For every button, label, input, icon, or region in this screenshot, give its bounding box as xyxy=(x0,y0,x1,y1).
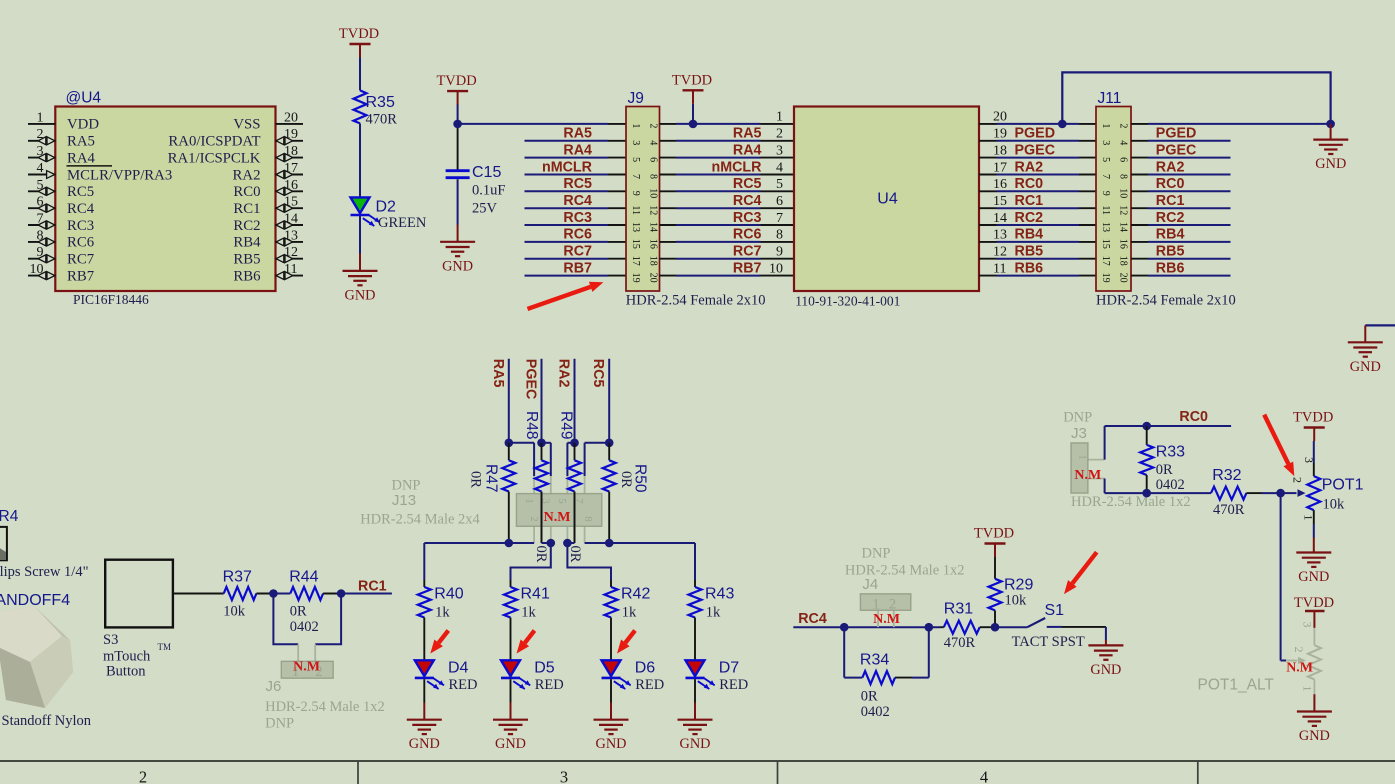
resistor R31 470R xyxy=(944,601,980,652)
wire R29 to junction xyxy=(994,610,996,627)
node label RB7 (J9 right) xyxy=(733,260,762,276)
svg-text:RB6: RB6 xyxy=(1156,260,1185,276)
svg-text:1: 1 xyxy=(1077,454,1089,460)
svg-text:20: 20 xyxy=(648,273,659,283)
U4 pin 4 MCLR/VPP/RA3 xyxy=(28,161,172,183)
svg-text:2: 2 xyxy=(528,516,540,522)
svg-text:RC7: RC7 xyxy=(563,244,592,260)
node label RA2 (vertical) xyxy=(556,359,572,388)
U4 socket pin number 18 xyxy=(993,143,1007,158)
node label RA4 (J9 left) xyxy=(563,142,592,158)
op-amp U4 PIC16F18446 body xyxy=(55,90,275,308)
wire U4 pin 12 to J11 xyxy=(979,258,1096,260)
label N.M (J4) xyxy=(873,612,900,627)
svg-text:0R: 0R xyxy=(861,689,878,705)
svg-text:R44: R44 xyxy=(289,569,318,586)
svg-text:19: 19 xyxy=(1100,273,1111,283)
U4 socket pin number 1 xyxy=(776,110,783,125)
power TVDD (R35 branch) xyxy=(339,26,379,58)
node junctions bottom row J13 xyxy=(505,539,614,548)
U4 pin 1 VDD xyxy=(28,110,99,132)
sheet border column dividers xyxy=(358,761,1198,784)
svg-text:RC1: RC1 xyxy=(233,201,260,217)
svg-text:RED: RED xyxy=(535,677,564,693)
U4 pin 2 RA5 xyxy=(28,127,95,149)
resistor R35 470R xyxy=(354,90,398,127)
red annotation arrow at LED xyxy=(517,631,535,654)
wire J11 right stub RC1 xyxy=(1131,207,1231,209)
svg-text:R41: R41 xyxy=(521,586,550,603)
svg-text:18: 18 xyxy=(993,143,1007,158)
svg-text:6: 6 xyxy=(776,194,783,209)
U4 pin 6 RC4 xyxy=(28,195,95,217)
svg-text:12: 12 xyxy=(648,205,659,215)
U4 socket pin number 14 xyxy=(993,211,1007,226)
svg-text:19: 19 xyxy=(993,127,1007,142)
svg-text:0.1uF: 0.1uF xyxy=(472,183,505,199)
wire R43 to D7 xyxy=(694,618,696,661)
svg-text:0R: 0R xyxy=(468,471,484,488)
svg-text:nMCLR: nMCLR xyxy=(542,159,593,175)
node label RC2 (J11 right) xyxy=(1156,210,1185,226)
node label RA4 (J9 right) xyxy=(733,142,762,158)
U4 pin 10 RB7 xyxy=(28,262,94,284)
red annotation arrow at S1 xyxy=(1064,552,1097,594)
sheet zone number 3 xyxy=(560,768,568,784)
svg-text:1k: 1k xyxy=(622,605,637,621)
svg-text:POT1_ALT: POT1_ALT xyxy=(1198,677,1275,694)
wire U4 pin 16 to J11 xyxy=(979,190,1096,192)
node label RC0 (U4 right) xyxy=(1015,176,1044,192)
resistor R43 1k xyxy=(689,580,735,621)
node label RC0 (J11 right) xyxy=(1156,176,1185,192)
svg-text:5: 5 xyxy=(556,498,568,504)
svg-text:15: 15 xyxy=(993,194,1007,209)
connector J6 DNP body xyxy=(281,661,333,680)
svg-text:4: 4 xyxy=(776,160,783,175)
U4 pin 11 RB6 xyxy=(233,262,303,284)
wire R35 to D2 xyxy=(359,123,361,197)
svg-text:RA5: RA5 xyxy=(67,134,95,150)
wire D7 to GND xyxy=(694,679,696,720)
svg-text:VDD: VDD xyxy=(67,117,99,133)
svg-text:RC3: RC3 xyxy=(563,210,592,226)
svg-text:17: 17 xyxy=(1100,256,1111,266)
svg-text:J3: J3 xyxy=(1071,425,1087,442)
svg-text:10k: 10k xyxy=(1323,497,1346,513)
wire net RC6 to J9 xyxy=(525,241,627,243)
wire staircase to R41 xyxy=(511,543,551,580)
svg-text:RB4: RB4 xyxy=(233,235,261,251)
svg-text:2: 2 xyxy=(776,127,783,142)
node label RC3 (J9 left) xyxy=(563,210,592,226)
wire TVDD to R29 xyxy=(994,557,996,579)
svg-text:16: 16 xyxy=(993,177,1007,192)
svg-text:S3: S3 xyxy=(103,632,118,648)
red annotation arrow at POT1 xyxy=(1264,415,1294,477)
svg-text:1: 1 xyxy=(523,498,535,504)
wire C15 to GND xyxy=(457,179,459,242)
wire J11 right stub RC2 xyxy=(1131,224,1231,226)
label N.M (J6) xyxy=(293,660,320,675)
svg-text:GND: GND xyxy=(409,736,440,752)
node label RC5 (vertical) xyxy=(590,359,606,388)
svg-text:D4: D4 xyxy=(448,660,469,677)
node label RC1 (J11 right) xyxy=(1156,193,1185,209)
svg-text:HDR-2.54 Male 1x2: HDR-2.54 Male 1x2 xyxy=(1071,494,1191,510)
svg-text:RA1/ICSPCLK: RA1/ICSPCLK xyxy=(168,150,261,166)
label J3 DNP xyxy=(1063,410,1092,443)
svg-text:9: 9 xyxy=(776,245,783,260)
svg-text:DNP: DNP xyxy=(265,716,294,732)
U4 pin 15 RC1 xyxy=(233,195,303,217)
node label PGED (U4 right) xyxy=(1015,126,1056,142)
svg-text:RB4: RB4 xyxy=(1015,227,1044,243)
svg-text:20: 20 xyxy=(993,110,1007,125)
svg-text:RB7: RB7 xyxy=(733,260,762,276)
wire J9 pin 12 to U4 pin 6 xyxy=(660,207,795,209)
svg-text:2: 2 xyxy=(1292,647,1306,653)
node label RC3 (J9 right) xyxy=(733,210,762,226)
svg-text:110-91-320-41-001: 110-91-320-41-001 xyxy=(795,294,900,309)
svg-text:RC5: RC5 xyxy=(67,184,94,200)
wire J11 right stub PGED xyxy=(1131,140,1231,142)
connector J3 DNP body xyxy=(1071,443,1105,493)
svg-text:RC6: RC6 xyxy=(733,227,762,243)
node label PGEC (U4 right) xyxy=(1015,142,1056,158)
node label RC6 (J9 right) xyxy=(733,227,762,243)
wire R31 to junction xyxy=(980,626,995,628)
node junction R37/R44 xyxy=(269,589,278,598)
svg-text:Standoff Nylon: Standoff Nylon xyxy=(2,713,92,729)
svg-text:10: 10 xyxy=(769,261,783,276)
svg-text:0402: 0402 xyxy=(290,619,319,635)
svg-text:RC3: RC3 xyxy=(67,218,94,234)
node label RC0 xyxy=(1179,409,1208,425)
node label RB7 (J9 left) xyxy=(563,260,592,276)
node label RB6 (U4 right) xyxy=(1015,260,1044,276)
label J4 DNP HDR-2.54 Male 1x2 xyxy=(845,546,965,594)
wire J9 pin 6 to U4 pin 3 xyxy=(660,157,795,159)
power TVDD (R29) xyxy=(974,526,1014,558)
svg-text:D6: D6 xyxy=(635,660,656,677)
node junction RC0/R33 xyxy=(1142,422,1151,431)
svg-text:1: 1 xyxy=(1302,515,1316,521)
U4 pin 12 RB5 xyxy=(233,245,303,267)
svg-text:RB7: RB7 xyxy=(563,260,592,276)
U4 pin 8 RC6 xyxy=(28,228,94,250)
potentiometer POT1_ALT (DNP) xyxy=(1286,622,1321,695)
node label RA5 (vertical) xyxy=(490,359,506,388)
U4 socket pin number 8 xyxy=(776,228,783,243)
wire top row to J13 pin stubs xyxy=(509,443,609,476)
svg-text:11: 11 xyxy=(630,205,641,215)
svg-text:DNP: DNP xyxy=(1063,410,1092,426)
resistor R49 0R xyxy=(568,443,581,543)
svg-text:3: 3 xyxy=(1100,140,1111,145)
node label RA5 (J9 right) xyxy=(733,126,762,142)
wire net RA5 vertical xyxy=(508,359,510,443)
svg-text:RC0: RC0 xyxy=(1015,176,1044,192)
ground GND (D2) xyxy=(343,271,378,304)
svg-text:R43: R43 xyxy=(705,586,734,603)
wire U4 pin20 loop to GND xyxy=(1062,72,1330,124)
wire U4 pin 15 to J11 xyxy=(979,207,1096,209)
svg-text:R29: R29 xyxy=(1004,577,1033,594)
svg-text:POT1: POT1 xyxy=(1322,477,1364,494)
wire D4 to GND xyxy=(423,679,425,720)
svg-text:PGEC: PGEC xyxy=(1015,142,1056,158)
svg-text:RA4: RA4 xyxy=(67,150,96,166)
svg-text:RA5: RA5 xyxy=(733,126,762,142)
svg-text:11: 11 xyxy=(993,261,1006,276)
svg-text:D5: D5 xyxy=(534,660,555,677)
svg-text:13: 13 xyxy=(993,228,1007,243)
svg-text:2: 2 xyxy=(1291,477,1305,483)
node label nMCLR (J9 left) xyxy=(542,159,593,175)
node junction R34 right xyxy=(925,623,934,632)
svg-text:25V: 25V xyxy=(472,200,498,216)
wire J11 right stub RB4 xyxy=(1131,241,1231,243)
wire R41 to D5 xyxy=(510,618,512,661)
svg-text:R47: R47 xyxy=(483,464,500,492)
node junction R33 bottom xyxy=(1142,489,1151,498)
svg-text:18: 18 xyxy=(648,256,659,266)
wire J9 pin 4 to U4 pin 2 xyxy=(660,140,795,142)
node junctions top row J13 xyxy=(505,439,614,448)
label N.M (J13) xyxy=(544,510,571,525)
svg-text:1: 1 xyxy=(1100,123,1111,128)
svg-text:N.M: N.M xyxy=(873,612,900,627)
svg-text:RA5: RA5 xyxy=(490,359,506,388)
wire staircase to R42 xyxy=(567,543,611,580)
U4 socket pin number 20 xyxy=(993,110,1007,125)
svg-text:STANDOFF4: STANDOFF4 xyxy=(0,592,70,609)
ground GND (D4) xyxy=(407,720,442,753)
svg-text:TVDD: TVDD xyxy=(974,526,1014,542)
label R50 0R rotated xyxy=(618,464,649,493)
U4 pin 13 RB4 xyxy=(233,228,303,250)
component SCR4 screw (clipped) xyxy=(0,508,89,580)
wire net nMCLR to J9 xyxy=(525,174,627,176)
svg-text:1k: 1k xyxy=(521,605,536,621)
svg-text:RC5: RC5 xyxy=(733,176,762,192)
sheet border bottom line xyxy=(0,760,1395,762)
node label RC7 (J9 right) xyxy=(733,244,762,260)
resistor R33 0R 0402 xyxy=(1140,426,1185,493)
resistor R44 0R 0402 xyxy=(289,569,323,636)
label POT1_ALT xyxy=(1198,677,1275,694)
wire D6 to GND xyxy=(610,679,612,720)
wire D2 to GND xyxy=(359,216,361,271)
wire TVDD node to J9 pin 1 xyxy=(458,123,626,125)
label J6 HDR-2.54 Male 1x2 DNP xyxy=(265,678,385,732)
wire S1 to GND xyxy=(1105,627,1107,646)
U4 socket pin number 3 xyxy=(776,143,783,158)
svg-text:D2: D2 xyxy=(376,199,397,216)
svg-text:3: 3 xyxy=(1302,457,1316,463)
sheet zone number 4 xyxy=(980,768,988,784)
label HDR-2.54 Male 1x2 (J3) xyxy=(1071,494,1191,510)
svg-text:RC4: RC4 xyxy=(563,193,592,209)
wire J11 pin 2 to GND net xyxy=(1131,123,1331,125)
svg-text:7: 7 xyxy=(630,174,641,179)
node label RC5 (J9 right) xyxy=(733,176,762,192)
wire J9 pin 18 to U4 pin 9 xyxy=(660,258,795,260)
wire down to R40 xyxy=(423,543,425,580)
wire J9 pin 8 to U4 pin 4 xyxy=(660,174,795,176)
svg-text:470R: 470R xyxy=(944,635,976,651)
U4 pin 5 RC5 xyxy=(28,178,94,200)
svg-text:J9: J9 xyxy=(628,90,644,107)
wire U4 pin 13 to J11 xyxy=(979,241,1096,243)
node label RA2 (U4 right) xyxy=(1015,159,1044,175)
node label RB4 (J11 right) xyxy=(1156,227,1185,243)
resistor R47 0R xyxy=(502,443,515,543)
wire down to R43 xyxy=(694,543,696,580)
wire junction to R44 xyxy=(273,593,290,595)
ground GND (POT1_ALT) xyxy=(1297,712,1332,745)
svg-text:GND: GND xyxy=(1299,728,1330,744)
wire net RC3 to J9 xyxy=(525,224,627,226)
resistor R50 0R xyxy=(603,443,616,543)
node label RC4 xyxy=(798,611,827,627)
svg-text:15: 15 xyxy=(1100,239,1111,249)
wire J3 pin1 to RC0 row xyxy=(1105,426,1232,460)
U4 socket pin number 4 xyxy=(776,160,783,175)
resistor R32 470R xyxy=(1211,467,1246,518)
node TVDD junction right of J9 xyxy=(689,120,698,129)
svg-text:RC2: RC2 xyxy=(233,218,260,234)
LED D2 GREEN xyxy=(351,197,427,231)
svg-text:R37: R37 xyxy=(223,569,252,586)
svg-text:R4: R4 xyxy=(0,508,19,525)
svg-text:R33: R33 xyxy=(1156,444,1185,461)
svg-text:GND: GND xyxy=(1315,156,1346,172)
svg-text:HDR-2.54 Male 1x2: HDR-2.54 Male 1x2 xyxy=(265,699,385,715)
svg-text:13: 13 xyxy=(630,222,641,232)
svg-text:14: 14 xyxy=(1118,222,1129,232)
wire J9 pin 20 to U4 pin 10 xyxy=(660,275,795,277)
wire J3 pin2 row to R32 xyxy=(1105,479,1211,494)
U4 socket pin number 16 xyxy=(993,177,1007,192)
svg-text:4: 4 xyxy=(37,161,44,176)
wire J11 right stub RB6 xyxy=(1131,275,1231,277)
wire J11 right stub PGEC xyxy=(1131,157,1231,159)
svg-text:0402: 0402 xyxy=(1156,477,1185,493)
ground GND (S1) xyxy=(1088,645,1123,678)
svg-text:PGEC: PGEC xyxy=(1156,142,1197,158)
svg-text:RC3: RC3 xyxy=(733,210,762,226)
svg-text:TVDD: TVDD xyxy=(1293,410,1333,426)
U4 pin 19 RA0/ICSPDAT xyxy=(168,127,303,149)
node label PGEC (J11 right) xyxy=(1156,142,1197,158)
svg-text:RC4: RC4 xyxy=(67,201,95,217)
U4 socket pin number 9 xyxy=(776,245,783,260)
wire J9 pin 14 to U4 pin 7 xyxy=(660,224,795,226)
svg-text:15: 15 xyxy=(630,239,641,249)
svg-text:RC7: RC7 xyxy=(67,252,94,268)
svg-text:RC4: RC4 xyxy=(733,193,762,209)
node label RB6 (J11 right) xyxy=(1156,260,1185,276)
svg-text:HDR-2.54 Male 2x4: HDR-2.54 Male 2x4 xyxy=(360,512,480,528)
svg-text:PIC16F18446: PIC16F18446 xyxy=(73,292,149,307)
svg-text:RC1: RC1 xyxy=(1156,193,1185,209)
red annotation arrow at LED xyxy=(430,631,448,654)
U4 socket pin number 2 xyxy=(776,127,783,142)
svg-text:1: 1 xyxy=(776,110,783,125)
ground GND (C15) xyxy=(440,242,475,274)
switch S1 TACT SPST xyxy=(995,602,1106,650)
wire net RC1 xyxy=(341,593,392,595)
node label RC1 (U4 right) xyxy=(1015,193,1044,209)
node label nMCLR (J9 right) xyxy=(711,159,762,175)
svg-text:RB5: RB5 xyxy=(233,252,260,268)
svg-text:RED: RED xyxy=(635,677,664,693)
svg-text:3: 3 xyxy=(776,143,783,158)
node junction POT1 wiper xyxy=(1276,489,1285,498)
U4 pin 18 RA1/ICSPCLK xyxy=(168,144,303,166)
wire U4 pin 20 to J11 xyxy=(979,123,1096,125)
svg-text:7: 7 xyxy=(1100,174,1111,179)
svg-text:C15: C15 xyxy=(472,164,501,181)
node junction at GND drop xyxy=(1326,120,1335,129)
svg-text:RB5: RB5 xyxy=(1015,244,1044,260)
svg-text:1k: 1k xyxy=(435,605,450,621)
svg-text:J4: J4 xyxy=(862,576,878,593)
wire J9 pin 10 to U4 pin 5 xyxy=(660,190,795,192)
wire J11 right stub RA2 xyxy=(1131,174,1231,176)
svg-text:RED: RED xyxy=(449,677,478,693)
svg-text:J6: J6 xyxy=(266,678,282,695)
switch S3 mTouch Button xyxy=(103,560,173,680)
svg-text:5: 5 xyxy=(776,177,783,192)
svg-text:GND: GND xyxy=(345,287,376,303)
U4 socket pin number 19 xyxy=(993,127,1007,142)
wire TVDD to R35 xyxy=(359,58,361,91)
svg-text:470R: 470R xyxy=(1213,502,1245,518)
node label RC7 (J9 left) xyxy=(563,244,592,260)
svg-text:8: 8 xyxy=(1118,174,1129,179)
svg-text:4: 4 xyxy=(1118,140,1129,145)
wire to top-right GND xyxy=(1365,325,1395,342)
svg-text:R32: R32 xyxy=(1212,467,1241,484)
svg-text:GND: GND xyxy=(1350,359,1381,375)
wire R44 to junction 2 xyxy=(323,593,341,595)
svg-text:R34: R34 xyxy=(860,652,889,669)
svg-text:RED: RED xyxy=(719,677,748,693)
node junction RC4/R34 left xyxy=(840,623,849,632)
ground GND (top right) xyxy=(1348,342,1383,375)
svg-text:3: 3 xyxy=(630,140,641,145)
svg-text:2: 2 xyxy=(1118,123,1129,128)
svg-text:RA0/ICSPDAT: RA0/ICSPDAT xyxy=(168,134,260,150)
wire U4 pin 11 to J11 xyxy=(979,275,1096,277)
wire U4 pin 19 to J11 xyxy=(979,140,1096,142)
svg-text:14: 14 xyxy=(648,222,659,232)
svg-text:0R: 0R xyxy=(533,546,549,563)
red annotation arrow at LED xyxy=(617,631,635,654)
node label RC4 (J9 left) xyxy=(563,193,592,209)
svg-text:RB6: RB6 xyxy=(233,268,260,284)
node label RC4 (J9 right) xyxy=(733,193,762,209)
wire J9 pin 2 to U4 pin 1 xyxy=(660,123,795,125)
svg-text:Button: Button xyxy=(106,664,146,680)
wire net RC7 to J9 xyxy=(525,258,627,260)
svg-text:3: 3 xyxy=(1301,622,1315,628)
svg-text:RC7: RC7 xyxy=(733,244,762,260)
wire net RC5 to J9 xyxy=(525,190,627,192)
